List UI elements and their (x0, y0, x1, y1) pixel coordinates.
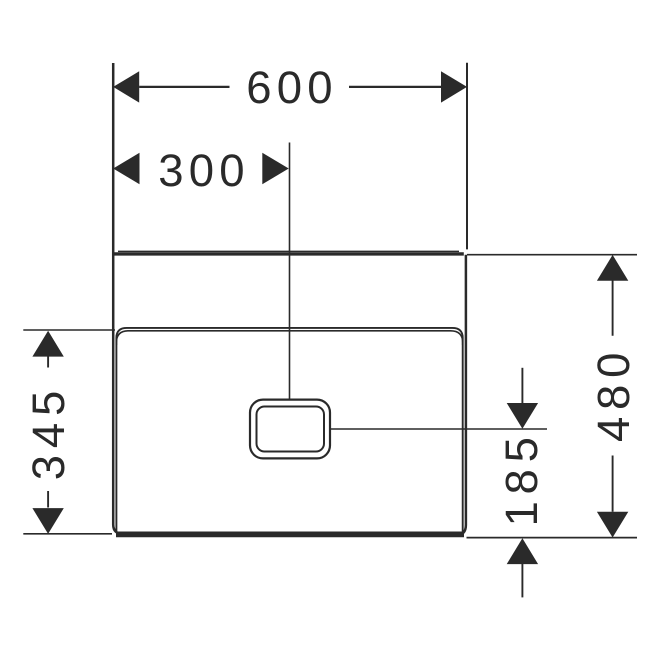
basin top thick front edge (113, 252, 463, 255)
floor line (480/185 bottom ref) (467, 537, 638, 539)
dimension line 185 upper segment (521, 368, 523, 403)
arrow 300 left (113, 153, 139, 184)
extension line 345 bottom (23, 533, 112, 535)
inner front panel rounded edge (116, 328, 462, 532)
extension line 480 top (467, 254, 637, 256)
basin right outer edge (456, 255, 466, 536)
arrow 345 up (32, 331, 63, 357)
arrow 480 up (597, 255, 628, 281)
svg-text:185: 185 (496, 430, 547, 526)
svg-text:600: 600 (246, 62, 338, 113)
dimension line 345 segments (47, 356, 49, 508)
centerline node (300 ref to drain) (289, 143, 291, 400)
dimension line 185 lower segment (521, 564, 523, 598)
basin bottom thick edge (116, 532, 464, 538)
svg-text:345: 345 (23, 384, 74, 480)
arrow 600 right (441, 71, 467, 102)
inner front panel second chamfer line (116, 331, 462, 345)
arrow 185 down (507, 403, 538, 429)
svg-text:300: 300 (158, 145, 250, 196)
arrow 600 left (113, 71, 139, 102)
svg-text:480: 480 (588, 346, 639, 442)
extension line left (600/300) merging into basin left edge (113, 63, 124, 534)
dimension line 480 segments (612, 280, 614, 512)
arrow 480 down (597, 512, 628, 538)
basin top thin back edge (118, 250, 459, 252)
extension line right (600) (466, 63, 468, 250)
dimension line 600 (139, 86, 441, 88)
drain hole inner rounded rect (257, 407, 325, 452)
arrow 300 right (262, 153, 288, 184)
extension line 345 top (23, 329, 115, 331)
drain hole outer rounded rect (250, 400, 330, 459)
arrow 345 down (32, 508, 63, 534)
arrow 185 up (507, 538, 538, 564)
extension line 185 top (drain centre) (331, 428, 547, 430)
